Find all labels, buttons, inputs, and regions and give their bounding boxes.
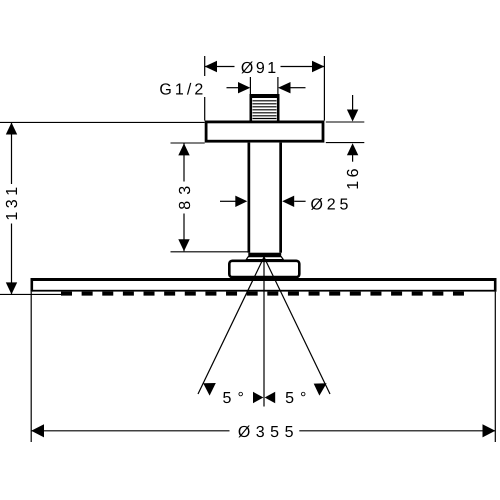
spray center line — [263, 257, 265, 407]
label G1/2 stub line left — [249, 77, 251, 94]
dimension Ø25 arrow right — [282, 196, 305, 207]
vertical pipe arm — [248, 143, 283, 253]
dimension 16 reference line bottom — [326, 142, 365, 144]
pipe end nut — [248, 253, 281, 257]
dimension Ø355 extension line left — [30, 292, 32, 442]
dimension Ø91 extension line left — [204, 56, 206, 121]
dimension 131 label — [4, 183, 21, 223]
spray line right — [264, 257, 330, 394]
nozzle face dashes — [61, 292, 464, 296]
dimension 131 arrow up — [6, 123, 17, 135]
dimension 83 arrow down — [178, 239, 189, 251]
svg-text:Ø25: Ø25 — [311, 196, 353, 213]
svg-text:5°: 5° — [223, 390, 250, 407]
dimension Ø91 dimension line — [205, 66, 324, 68]
dimension Ø91 extension line right — [323, 56, 325, 121]
label G1/2 stub line right — [277, 77, 279, 94]
dimension 83 label — [177, 180, 194, 214]
ceiling flange plate — [206, 122, 323, 141]
svg-text:Ø91: Ø91 — [241, 60, 279, 77]
svg-text:5°: 5° — [285, 390, 312, 407]
dimension 83 reference line top — [171, 142, 205, 144]
label G1/2 text — [156, 76, 208, 98]
dimension Ø91 arrow right — [312, 61, 324, 73]
dimension 131 reference line bottom — [0, 293, 61, 295]
dimension 131 arrow down — [6, 282, 17, 294]
svg-text:Ø355: Ø355 — [238, 424, 299, 441]
threaded stem G1/2 — [250, 94, 280, 121]
dimension Ø91 arrow left — [205, 61, 217, 73]
dimension Ø355 dimension line — [31, 430, 495, 432]
spray angle arrow left — [253, 392, 263, 403]
dimension Ø355 extension line right — [494, 292, 496, 442]
pipe end cone — [246, 257, 283, 260]
dimension 83 dimension line — [183, 143, 185, 251]
spray angle arrow right — [265, 392, 276, 403]
dimension 16 lower arrow — [347, 143, 358, 162]
svg-text:83: 83 — [177, 180, 194, 210]
dimension 131 dimension line — [11, 123, 13, 295]
label G1/2 arrow right — [278, 82, 306, 93]
dimension Ø355 arrow right — [483, 424, 496, 437]
ball joint escutcheon — [229, 261, 299, 277]
dimension Ø91 label — [235, 57, 281, 77]
shower head plate — [31, 278, 497, 292]
dimension 16 reference line top — [326, 121, 365, 123]
dimension 83 arrow up — [178, 143, 189, 155]
svg-text:G1/2: G1/2 — [159, 81, 206, 98]
dimension 83 reference line bottom — [171, 251, 248, 253]
svg-text:131: 131 — [4, 183, 21, 220]
svg-text:16: 16 — [345, 165, 362, 190]
dimension 16 upper arrow — [347, 95, 358, 122]
dimension Ø25 arrow left — [220, 196, 247, 207]
spray arrow right — [314, 383, 327, 395]
spray arrow left — [203, 383, 216, 396]
dimension Ø355 label — [230, 423, 300, 441]
dimension 131 reference line top — [0, 121, 205, 123]
label G1/2 arrow left — [227, 82, 251, 93]
dimension Ø355 arrow left — [31, 424, 44, 437]
spray line left — [198, 257, 264, 394]
